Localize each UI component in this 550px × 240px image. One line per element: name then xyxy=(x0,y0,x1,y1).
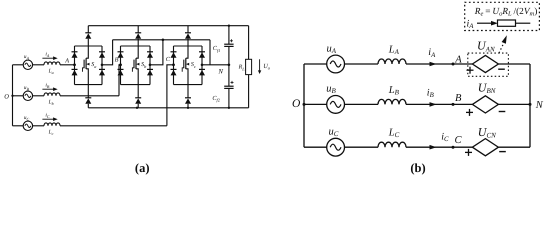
capacitor Cf1 xyxy=(224,43,233,45)
wire source-to-inductor A (a) xyxy=(33,64,44,66)
diode Dat stem lower xyxy=(87,39,89,46)
svg-text:iB: iB xyxy=(427,88,434,100)
svg-text:iA: iA xyxy=(45,51,50,58)
diode Dat stem upper xyxy=(87,26,89,33)
current arrow iC (b) xyxy=(430,145,437,150)
diode Db2 upper-right xyxy=(147,51,153,53)
controlled source U_CN (b) xyxy=(472,139,498,156)
junction O-B (b) xyxy=(303,103,306,106)
diode Dcb stem lower xyxy=(187,104,189,108)
wire: cell Sb mid to N-rail xyxy=(150,40,163,65)
svg-text:B: B xyxy=(455,93,462,104)
svg-text:Lb: Lb xyxy=(48,99,54,106)
svg-text:O: O xyxy=(292,98,301,110)
bridge cell Sc: left leg xyxy=(173,46,175,85)
wire: negative dc bus xyxy=(88,107,248,109)
bridge cell Sc: bottom rail xyxy=(174,84,203,86)
svg-text:iA: iA xyxy=(467,19,475,31)
diode Dct stem upper xyxy=(187,26,189,33)
wire phase C left (b) xyxy=(304,146,327,148)
plus sign U_CN xyxy=(465,151,472,153)
wire source-to-inductor C (a) xyxy=(33,125,44,127)
inductor LB (b) xyxy=(378,99,406,104)
svg-text:uB: uB xyxy=(24,85,30,92)
svg-text:A: A xyxy=(454,54,462,65)
svg-text:uC: uC xyxy=(329,127,339,139)
diode Dc1 upper-left xyxy=(171,51,177,53)
wire: N cross rail xyxy=(113,39,210,41)
junction right-mid cell Sc xyxy=(201,64,204,67)
wire phase C left (a) xyxy=(13,125,24,127)
junction right-mid cell Sa xyxy=(101,64,104,67)
voltage arrow Uo xyxy=(259,59,261,71)
junction right-mid cell Sb xyxy=(149,64,152,67)
plus sign U_AN xyxy=(467,69,474,71)
bridge cell Sa: bottom rail xyxy=(75,84,103,86)
resistor Re box xyxy=(498,20,516,26)
svg-text:Sb: Sb xyxy=(141,62,147,69)
svg-text:iB: iB xyxy=(45,82,50,89)
plus sign U_BN xyxy=(466,111,473,113)
bridge cell Sa: right leg xyxy=(101,46,103,85)
diode Dcb (to - bus) xyxy=(185,97,191,99)
wire source-to-inductor C (b) xyxy=(345,146,379,148)
junction midpoint at cap leg xyxy=(228,64,231,67)
diode Dbt (to + bus) xyxy=(135,32,141,34)
ac source uC (b) xyxy=(327,138,345,156)
current arrow iA (b) xyxy=(430,62,437,67)
controlled source U_AN (b) xyxy=(472,55,498,72)
diode Dat (to + bus) xyxy=(85,32,91,34)
node C (a) xyxy=(172,64,175,67)
svg-text:La: La xyxy=(48,68,54,75)
diode Dct (to + bus) xyxy=(185,32,191,34)
wire: N bus (b) xyxy=(529,64,531,147)
node A (a) xyxy=(73,64,76,67)
svg-text:RL: RL xyxy=(238,65,246,72)
svg-text:iC: iC xyxy=(45,112,50,119)
node A (b) xyxy=(452,63,455,66)
inductor Lb (a) xyxy=(44,93,60,96)
svg-text:A: A xyxy=(64,57,69,64)
inductor Lc (a) xyxy=(44,123,60,126)
wire source-to-inductor B (a) xyxy=(33,95,44,97)
wire phase B riser (a) xyxy=(119,65,121,96)
junction left-mid cell Sb xyxy=(119,64,122,67)
diode Db4 lower-right xyxy=(147,68,153,70)
minus sign U_CN xyxy=(499,151,506,153)
svg-text:iA: iA xyxy=(428,47,436,59)
wire: positive dc bus xyxy=(88,25,248,27)
svg-text:uA: uA xyxy=(24,54,30,61)
svg-text:LA: LA xyxy=(388,44,400,56)
svg-text:uC: uC xyxy=(24,115,30,122)
svg-text:Cf2: Cf2 xyxy=(212,95,220,103)
svg-text:C: C xyxy=(166,56,171,63)
diode Dbt stem lower xyxy=(137,39,139,46)
bridge cell Sb: left leg xyxy=(120,46,122,85)
svg-text:uB: uB xyxy=(326,84,336,96)
bridge cell Sa: left leg xyxy=(74,46,76,85)
diode Da4 lower-right xyxy=(99,68,105,70)
svg-text:LC: LC xyxy=(388,128,400,140)
current arrow iA (a) xyxy=(42,57,54,59)
mosfet Sa xyxy=(86,46,88,58)
junction cap leg on - bus xyxy=(228,107,230,109)
dashed box around U_AN xyxy=(468,53,509,76)
bridge cell Sc: top rail xyxy=(174,45,203,47)
svg-text:(b): (b) xyxy=(410,161,425,175)
diode Dbb stem lower xyxy=(137,104,139,108)
ac source uA (b) xyxy=(327,55,345,73)
diode Db1 upper-left xyxy=(118,51,124,53)
svg-text:Lc: Lc xyxy=(48,129,54,136)
mosfet Sc xyxy=(186,46,188,58)
junction Db-bottom on - bus xyxy=(136,107,138,109)
wire source-to-inductor B (b) xyxy=(345,103,379,105)
wire phase B left (a) xyxy=(13,95,24,97)
svg-text:UBN: UBN xyxy=(478,81,496,96)
svg-text:O: O xyxy=(4,93,9,100)
resistor RL xyxy=(246,59,252,74)
diode Da2 upper-right xyxy=(99,51,105,53)
junction left-mid cell Sa xyxy=(73,64,76,67)
diode Dbb (to - bus) xyxy=(135,97,141,99)
svg-text:Re = UoRL /(2Vm): Re = UoRL /(2Vm) xyxy=(474,7,538,18)
minus sign U_BN xyxy=(499,111,506,113)
diode Da3 lower-left xyxy=(72,68,78,70)
ac source uA (a) xyxy=(23,60,32,69)
inductor La (a) xyxy=(44,62,60,65)
wire phase B left (b) xyxy=(304,103,327,105)
wire phase C riser (a) xyxy=(167,65,174,126)
inductor LC (b) xyxy=(378,142,406,147)
svg-text:LB: LB xyxy=(388,85,400,97)
wire: cap leg middle xyxy=(228,46,230,86)
wire: load leg lower xyxy=(248,75,250,108)
diode Dc4 lower-right xyxy=(199,68,205,70)
svg-text:UAN: UAN xyxy=(477,39,495,54)
svg-text:N: N xyxy=(217,69,223,76)
current arrow iC (a) xyxy=(42,118,54,120)
arrow into Re resistor xyxy=(477,22,492,24)
junction cap leg on + bus xyxy=(228,25,230,27)
bridge cell Sb: bottom rail xyxy=(121,84,151,86)
wire: neutral bus (b) xyxy=(303,64,305,147)
junction on N cross rail xyxy=(162,39,165,42)
svg-text:Sa: Sa xyxy=(91,62,96,69)
node B (b) xyxy=(452,103,455,106)
mosfet Sb xyxy=(136,46,138,58)
wire phase C run (a) xyxy=(60,125,167,127)
wire source-to-N C (b) xyxy=(498,146,530,148)
junction Dc-bottom on - bus xyxy=(187,107,189,109)
diode Dbb stem upper xyxy=(137,85,139,98)
wire: load leg upper xyxy=(248,26,250,60)
node N (b) xyxy=(529,103,532,106)
wire source-to-N B (b) xyxy=(498,103,530,105)
bridge cell Sb: right leg xyxy=(149,46,151,85)
ac source uB (b) xyxy=(327,96,345,114)
diode Dab (to - bus) xyxy=(85,97,91,99)
wire from Re resistor xyxy=(516,22,531,24)
ac source uB (a) xyxy=(23,91,32,100)
wire: source neutral bus (a) xyxy=(12,65,14,126)
svg-text:Uo: Uo xyxy=(263,63,271,71)
diode Dc2 upper-right xyxy=(199,51,205,53)
dashed equation box xyxy=(465,2,540,30)
diode Dc3 lower-left xyxy=(171,68,177,70)
minus sign U_AN xyxy=(498,68,505,70)
wire inductor-to-source C (b) xyxy=(406,146,472,148)
wire source-to-N A (b) xyxy=(498,63,530,65)
svg-text:N: N xyxy=(535,100,544,111)
svg-text:(a): (a) xyxy=(135,161,150,175)
svg-text:uA: uA xyxy=(327,44,337,56)
svg-text:Sc: Sc xyxy=(191,62,196,69)
diode Dab stem lower xyxy=(87,104,89,108)
diode Dcb stem upper xyxy=(187,85,189,98)
svg-text:Cf1: Cf1 xyxy=(213,45,220,53)
wire phase A left (b) xyxy=(304,63,327,65)
diode Db3 lower-left xyxy=(118,68,124,70)
svg-text:iC: iC xyxy=(441,131,449,143)
node C (b) xyxy=(452,146,455,149)
wire: N-rail drop xyxy=(209,40,211,65)
ac source uC (a) xyxy=(23,121,32,130)
wire: midpoint rail to capacitors xyxy=(202,64,229,66)
diode Dct stem lower xyxy=(187,39,189,46)
capacitor Cf2 xyxy=(224,85,233,87)
diode Da1 upper-left xyxy=(72,51,78,53)
bridge cell Sa: top rail xyxy=(75,45,103,47)
svg-text:UCN: UCN xyxy=(478,125,496,140)
inductor LA (b) xyxy=(378,59,406,64)
bridge cell Sc: right leg xyxy=(201,46,203,85)
controlled source U_BN (b) xyxy=(472,96,498,113)
wire phase A to bridge (a) xyxy=(60,64,75,66)
wire: cap leg lower xyxy=(228,88,230,107)
svg-text:C: C xyxy=(455,135,463,146)
diode Dab stem upper xyxy=(87,85,89,98)
wire: cell Sa mid to N-rail xyxy=(102,40,113,65)
bridge cell Sb: top rail xyxy=(121,45,151,47)
wire source-to-inductor A (b) xyxy=(345,63,379,65)
wire phase A left (a) xyxy=(13,64,24,66)
dotted arrow to equivalent-resistance box xyxy=(499,43,504,53)
current arrow iB (b) xyxy=(430,102,437,107)
wire: cap leg upper xyxy=(228,26,230,45)
node B (a) xyxy=(119,64,122,67)
wire inductor-to-source B (b) xyxy=(406,103,472,105)
wire inductor-to-source A (b) xyxy=(406,63,472,65)
current arrow iB (a) xyxy=(42,88,54,90)
wire phase B run (a) xyxy=(60,95,119,97)
junction left-mid cell Sc xyxy=(172,64,175,67)
diode Dbt stem upper xyxy=(137,26,139,33)
node O (a) xyxy=(11,95,13,97)
